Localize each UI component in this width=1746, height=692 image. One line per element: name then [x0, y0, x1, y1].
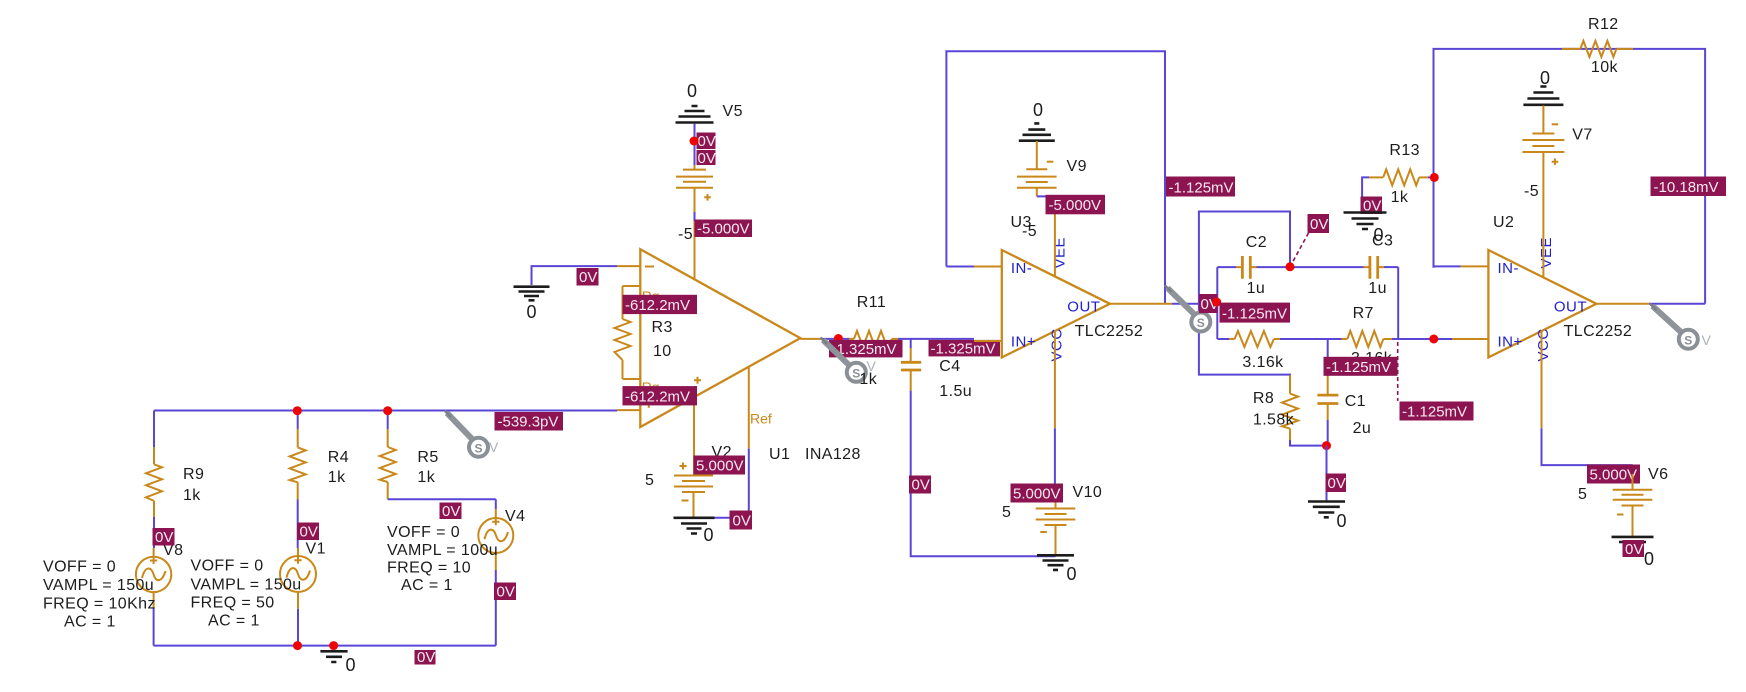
svg-text:AC = 1: AC = 1	[401, 577, 453, 594]
battery V2	[645, 444, 732, 501]
node dot C2 right	[1286, 262, 1295, 271]
capacitor C3	[1290, 233, 1398, 298]
svg-text:-10.18mV: -10.18mV	[1654, 179, 1719, 196]
svg-text:C1: C1	[1345, 393, 1366, 410]
pin U3 VCC to V10	[1054, 331, 1056, 484]
wire V7 to U2 VEE	[1542, 152, 1544, 278]
svg-text:INA128: INA128	[805, 446, 861, 463]
wire R4 to V1	[297, 500, 299, 549]
svg-text:V: V	[489, 439, 499, 455]
wire V7 ground to battery	[1542, 106, 1544, 134]
badge -1.325mV U1 out	[829, 340, 903, 358]
ground bottom bus	[320, 651, 355, 675]
svg-text:2u: 2u	[1353, 420, 1372, 437]
svg-text:0V: 0V	[442, 503, 460, 520]
svg-text:1k: 1k	[183, 487, 201, 504]
source V4	[478, 508, 525, 570]
resistor R5	[380, 429, 439, 499]
svg-text:R12: R12	[1588, 16, 1619, 33]
svg-text:0: 0	[1374, 225, 1384, 245]
svg-text:-1.125mV: -1.125mV	[1326, 359, 1391, 376]
svg-text:-5: -5	[1022, 223, 1037, 240]
svg-text:0V: 0V	[497, 584, 515, 601]
badge -10.18mV U2 out	[1651, 177, 1727, 197]
svg-text:0: 0	[1067, 564, 1077, 584]
svg-text:R7: R7	[1353, 305, 1374, 322]
svg-text:Ref: Ref	[750, 411, 772, 427]
wire U3 out node vertical	[1216, 267, 1218, 339]
wire V8 bottom	[153, 608, 155, 645]
badge 5.000V V2	[694, 456, 746, 475]
wire U2 in-	[1434, 265, 1489, 267]
svg-text:10: 10	[653, 343, 672, 360]
svg-text:5: 5	[645, 472, 654, 489]
svg-text:5: 5	[1002, 504, 1011, 521]
wire R5 to V4	[388, 498, 496, 500]
svg-text:R5: R5	[417, 449, 438, 466]
svg-text:R8: R8	[1253, 390, 1274, 407]
ground U1 inverting input	[514, 266, 618, 322]
pin U2 VCC to V6	[1542, 331, 1633, 465]
probe U2 out	[1650, 304, 1712, 349]
svg-text:0: 0	[1644, 549, 1654, 569]
ground V10	[1037, 555, 1077, 584]
svg-text:1k: 1k	[1391, 189, 1409, 206]
svg-text:VAMPL = 150u: VAMPL = 150u	[191, 577, 302, 594]
badge 0V V8	[153, 528, 175, 546]
badge 0V V4 bottom	[494, 583, 516, 601]
wire V4 top	[495, 499, 497, 509]
capacitor C1	[1317, 339, 1371, 446]
pin Ref U1	[700, 367, 772, 518]
badge -5.000V V9	[1046, 195, 1106, 215]
resistor R3	[615, 286, 673, 379]
svg-text:-5: -5	[1524, 183, 1539, 200]
badge 0V V5 a	[697, 133, 716, 151]
svg-text:0: 0	[687, 81, 697, 101]
badge -1.325mV C4	[929, 340, 1001, 357]
resistor R4	[290, 429, 349, 500]
badge 0V bottom bus	[415, 649, 436, 666]
op-amp U2 TLC2252	[1488, 214, 1632, 362]
badge 0V filter ground	[1326, 474, 1347, 493]
badge 0V Ref	[730, 511, 753, 530]
pin Rg top stub	[623, 285, 641, 287]
wire V9 ground to battery	[1036, 141, 1038, 169]
svg-text:-5: -5	[678, 226, 693, 243]
ground V2	[674, 518, 715, 545]
svg-text:AC = 1: AC = 1	[64, 614, 116, 631]
svg-text:TLC2252: TLC2252	[1564, 323, 1633, 340]
svg-text:V6: V6	[1648, 466, 1668, 483]
wire R9 to V8	[153, 517, 155, 548]
badge 0V R13	[1361, 197, 1383, 215]
svg-text:V7: V7	[1572, 127, 1592, 144]
wire R11 to U3 in+	[898, 338, 974, 340]
probe U1 out	[821, 338, 877, 382]
wire top input bus	[154, 410, 617, 412]
svg-text:0: 0	[704, 525, 714, 545]
wire V1 bottom	[297, 609, 299, 646]
op-amp U3 TLC2252	[1002, 214, 1143, 362]
node dot C1 bottom	[1322, 441, 1331, 450]
badge 0V V5 b	[697, 150, 716, 167]
svg-text:5: 5	[1578, 486, 1587, 503]
badge 0V V1	[297, 523, 319, 541]
svg-text:R9: R9	[183, 466, 204, 483]
svg-text:U2: U2	[1493, 214, 1514, 231]
svg-text:IN-: IN-	[1011, 260, 1033, 277]
badge -1.125mV R7 node	[1324, 357, 1398, 376]
wire V9 to U3 VEE	[1037, 188, 1055, 278]
svg-text:-1.125mV: -1.125mV	[1222, 306, 1287, 323]
svg-text:IN+: IN+	[1011, 334, 1036, 351]
svg-text:VAMPL = 150u: VAMPL = 150u	[43, 577, 154, 594]
badge 0V R5 wire	[440, 503, 462, 521]
node dot U3 out	[1212, 298, 1221, 307]
ground filter	[1308, 502, 1347, 532]
wire U1 V+ pin to V2	[693, 397, 695, 476]
svg-text:R11: R11	[857, 294, 886, 311]
svg-text:0V: 0V	[698, 150, 716, 167]
wire C1 node to ground	[1326, 446, 1328, 501]
wire V8 branch top	[153, 411, 155, 448]
svg-text:1u: 1u	[1247, 280, 1266, 297]
node junction dots left	[293, 406, 392, 650]
svg-text:VOFF = 0: VOFF = 0	[191, 558, 264, 575]
battery V6	[1578, 466, 1668, 515]
svg-text:0: 0	[1033, 100, 1043, 120]
svg-text:V10: V10	[1073, 484, 1103, 501]
ground R13	[1344, 213, 1387, 246]
svg-text:-612.2mV: -612.2mV	[625, 297, 690, 314]
svg-text:AC = 1: AC = 1	[208, 613, 260, 630]
source V8	[136, 542, 183, 608]
svg-text:0: 0	[1337, 511, 1347, 531]
probe input node	[445, 411, 500, 457]
badge 5.000V V10	[1011, 484, 1064, 503]
svg-text:R4: R4	[328, 449, 349, 466]
svg-text:VCC: VCC	[1049, 328, 1066, 361]
svg-text:0V: 0V	[912, 477, 930, 494]
wire C4 bottom	[911, 391, 1056, 557]
svg-text:0V: 0V	[1310, 216, 1328, 233]
wire U3 feedback loop	[946, 51, 1165, 304]
svg-text:0: 0	[346, 655, 356, 675]
svg-text:0V: 0V	[300, 524, 318, 541]
node dot V5	[690, 137, 699, 146]
svg-text:0V: 0V	[417, 649, 435, 666]
svg-text:R3: R3	[652, 319, 673, 336]
badge 0V U3 out	[1199, 294, 1219, 313]
resistor R-3.16k first	[1217, 331, 1284, 371]
wire V6 to ground	[1632, 506, 1634, 537]
svg-text:0V: 0V	[1328, 475, 1346, 492]
svg-text:1u: 1u	[1368, 280, 1387, 297]
svg-text:0V: 0V	[579, 269, 597, 286]
wire V5 ground to battery	[694, 124, 696, 166]
badge -612.2mV Rg top	[623, 295, 698, 314]
node dot R13 junction	[1430, 173, 1439, 182]
battery V10	[1002, 484, 1102, 532]
label V8 params	[43, 559, 156, 631]
svg-text:S: S	[475, 442, 483, 456]
badge -612.2mV Rg bottom	[623, 386, 698, 405]
wire V5 to U1 V- pin	[694, 188, 696, 280]
badge -1.125mV U3 out	[1220, 303, 1291, 323]
svg-text:R13: R13	[1389, 142, 1420, 159]
svg-text:1k: 1k	[859, 371, 877, 388]
wire bottom bus	[154, 645, 496, 647]
resistor R7	[1342, 305, 1393, 367]
badge -539.3pV	[495, 412, 564, 431]
battery V7	[1522, 124, 1592, 165]
wire between filter resistors	[1280, 338, 1342, 340]
svg-text:C2: C2	[1246, 234, 1267, 251]
badge -1.125mV leader dashed	[1398, 342, 1474, 421]
ground V5 top	[676, 81, 714, 123]
svg-text:0V: 0V	[1625, 541, 1643, 558]
svg-text:OUT: OUT	[1554, 299, 1587, 316]
probe U3 out	[1165, 286, 1210, 332]
wire V2 to ground	[693, 492, 695, 518]
ground V7 top	[1523, 68, 1563, 105]
ground V6	[1612, 537, 1655, 569]
ground V9 top	[1019, 100, 1055, 141]
svg-text:FREQ = 10Khz: FREQ = 10Khz	[43, 596, 156, 613]
wire R5 branch top	[387, 411, 389, 430]
svg-text:-612.2mV: -612.2mV	[625, 388, 690, 405]
svg-text:VOFF = 0: VOFF = 0	[387, 524, 460, 541]
svg-text:V: V	[1702, 332, 1712, 348]
svg-text:TLC2252: TLC2252	[1075, 323, 1144, 340]
svg-text:VCC: VCC	[1535, 328, 1552, 361]
svg-text:3.16k: 3.16k	[1242, 354, 1284, 371]
resistor R11	[849, 294, 898, 347]
pin Rg bottom stub	[623, 378, 641, 380]
svg-text:VOFF = 0: VOFF = 0	[43, 559, 116, 576]
wire V1 branch top	[297, 411, 299, 430]
label V1 params	[191, 558, 302, 630]
wire filter feedback loop	[1199, 212, 1290, 376]
svg-text:VEE: VEE	[1538, 237, 1555, 269]
svg-text:0V: 0V	[155, 529, 173, 546]
wire V4 bottom	[495, 570, 497, 646]
svg-text:5.000V: 5.000V	[1013, 486, 1061, 503]
capacitor C2	[1217, 234, 1290, 297]
svg-text:V4: V4	[505, 508, 525, 525]
badge -1.125mV U3 loop	[1166, 177, 1235, 197]
node dot U1 out	[834, 334, 843, 343]
svg-text:S: S	[1197, 316, 1205, 330]
wire U3 in+ stub	[974, 340, 1002, 342]
svg-text:-539.3pV: -539.3pV	[498, 414, 559, 431]
svg-text:1k: 1k	[417, 469, 435, 486]
resistor R12	[1562, 16, 1633, 76]
battery V9	[1017, 158, 1087, 188]
badge 5.000V V6	[1587, 465, 1640, 484]
wire U3 output	[1110, 303, 1217, 305]
svg-text:5.000V: 5.000V	[696, 458, 744, 475]
svg-text:V1: V1	[306, 541, 326, 558]
svg-text:V5: V5	[723, 103, 743, 120]
svg-text:S: S	[1684, 334, 1692, 348]
resistor R13	[1362, 142, 1433, 206]
label V4 params	[387, 524, 498, 594]
svg-text:-5.000V: -5.000V	[697, 221, 750, 238]
battery V5	[676, 103, 743, 201]
op-amp U1 INA128	[617, 249, 861, 463]
wire V10 to ground	[1055, 525, 1057, 555]
wire U2 feedback loop	[1434, 49, 1706, 304]
svg-text:0V: 0V	[733, 513, 751, 530]
node dot U2 in+ row	[1429, 335, 1438, 344]
svg-text:1k: 1k	[328, 469, 346, 486]
svg-text:1.58k: 1.58k	[1253, 412, 1295, 429]
svg-text:C4: C4	[939, 358, 960, 375]
wire U1 output	[800, 338, 849, 340]
source V1	[280, 541, 326, 609]
svg-text:IN+: IN+	[1498, 334, 1523, 351]
svg-text:-1.125mV: -1.125mV	[1169, 180, 1234, 197]
svg-text:IN-: IN-	[1498, 260, 1520, 277]
svg-text:U1: U1	[769, 446, 790, 463]
resistor R8	[1253, 375, 1327, 445]
svg-text:VAMPL = 100u: VAMPL = 100u	[387, 542, 498, 559]
svg-text:-5.000V: -5.000V	[1049, 197, 1102, 214]
capacitor C4	[901, 339, 972, 400]
svg-text:OUT: OUT	[1067, 299, 1100, 316]
svg-text:-1.325mV: -1.325mV	[931, 340, 996, 357]
wire R7 to U2 in+	[1392, 338, 1452, 340]
wire U2 in+ stub	[1452, 338, 1488, 340]
svg-text:FREQ = 50: FREQ = 50	[191, 595, 275, 612]
badge 0V V6 ground	[1623, 540, 1645, 558]
badge 0V C4	[909, 476, 931, 494]
wire U3 in-	[946, 266, 1001, 268]
svg-text:FREQ = 10: FREQ = 10	[387, 560, 471, 577]
svg-text:0: 0	[527, 302, 537, 322]
svg-text:0V: 0V	[698, 133, 716, 150]
svg-text:1.5u: 1.5u	[939, 383, 972, 400]
wire U2 output	[1596, 303, 1705, 305]
svg-text:0: 0	[1540, 68, 1550, 88]
badge 0V U1 in-	[577, 268, 599, 286]
badge -5.000V V5	[695, 220, 753, 238]
svg-text:10k: 10k	[1591, 59, 1619, 76]
svg-text:V9: V9	[1067, 158, 1087, 175]
svg-text:-1.125mV: -1.125mV	[1402, 404, 1467, 421]
svg-text:5.000V: 5.000V	[1590, 467, 1638, 484]
wire C3 down to R row	[1397, 267, 1399, 339]
resistor R9	[146, 447, 204, 517]
badge 0V C2 node	[1291, 214, 1329, 265]
